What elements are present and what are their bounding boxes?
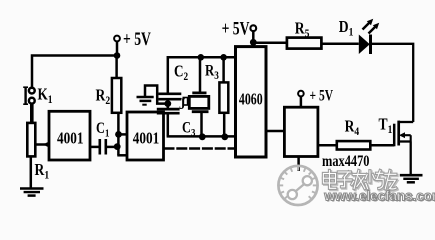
svg-text:+ 5V: + 5V <box>222 17 250 39</box>
svg-text:4001: 4001 <box>133 129 160 148</box>
ground (T1 source) <box>400 175 423 182</box>
switch K1 <box>23 86 52 106</box>
resistor R4 <box>337 117 371 149</box>
gate U2 4001 <box>127 112 164 160</box>
IC U4 max4470 <box>284 107 369 171</box>
svg-text:4060: 4060 <box>239 91 263 109</box>
wire R5 to D1 <box>321 43 358 46</box>
wire top-left +5V rail <box>32 56 117 88</box>
svg-text:www.elecfans.com: www.elecfans.com <box>323 188 435 203</box>
resistor R3 <box>205 57 228 136</box>
wire R2 down to nodes <box>117 113 120 156</box>
node dot rail/xtal <box>198 54 205 61</box>
wire node to gate2 input a <box>119 133 129 136</box>
power terminal +5V (left) <box>114 28 151 59</box>
wire ground elbow <box>145 86 168 104</box>
ground (oscillator) <box>137 97 154 105</box>
ground under R1 <box>20 156 44 195</box>
capacitor C1 <box>96 120 109 155</box>
wire C1 to node <box>106 146 117 149</box>
wiper arrow to gate input <box>36 141 50 148</box>
wire node to gate2 input b <box>117 154 128 157</box>
wire source down <box>410 142 412 176</box>
watermark text chinese <box>323 171 397 191</box>
wire max4470 out to R4 <box>318 144 337 147</box>
svg-text:4001: 4001 <box>57 129 84 148</box>
power terminal +5V (middle) <box>222 17 257 47</box>
wire oscillator top rail <box>168 57 236 93</box>
capacitor C3 <box>157 104 196 140</box>
wire gate1 output <box>90 146 100 149</box>
resistor R2 <box>96 56 122 113</box>
IC U3 4060 <box>236 47 267 157</box>
svg-text:+ 5V: + 5V <box>123 28 151 50</box>
crystal J <box>179 57 209 136</box>
wire K1 to R1 <box>30 103 34 124</box>
node dot lower <box>114 143 121 150</box>
node dot on 4060 top <box>250 39 257 46</box>
svg-text:+ 5V: + 5V <box>310 88 334 105</box>
watermark logo <box>278 166 317 205</box>
wire 4060 to max4470 <box>266 130 284 133</box>
power terminal +5V (right) <box>298 88 333 107</box>
transistor T1 (n-MOSFET) <box>379 115 414 146</box>
wire 4060 top to R5 <box>253 42 287 45</box>
node dot rail/R3 <box>220 54 227 61</box>
resistor R5 <box>287 19 322 49</box>
capacitor C2 <box>159 63 189 103</box>
node dot bottom/R3 <box>221 133 228 140</box>
node dot bottom/xtal <box>199 133 206 140</box>
node dot C2/C3 <box>164 100 171 107</box>
node dot upper <box>115 131 122 138</box>
wire R4 to gate <box>370 144 394 147</box>
wire D1 to drain <box>372 44 414 122</box>
resistor R1 (pot) <box>27 123 49 182</box>
wire oscillator bottom rail <box>167 135 236 138</box>
gate U1 4001 <box>49 111 90 160</box>
svg-text:max4470: max4470 <box>322 153 369 171</box>
wire gate2 output to 4060 (dashed scan look) <box>164 147 237 150</box>
LED D1 <box>339 18 379 54</box>
